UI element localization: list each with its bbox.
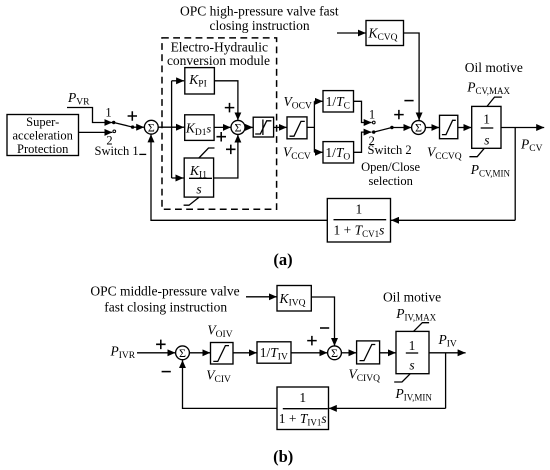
block rate limiter [253, 117, 273, 137]
wire switch2 pivot to summer S3 [392, 127, 412, 129]
svg-text:Oil motive: Oil motive [465, 60, 523, 75]
wire instruction to KCVQ [337, 32, 366, 34]
wire instruction to KIVQ [246, 296, 277, 298]
wire S3 to saturation VCCVQ [425, 127, 439, 129]
plus sign S2 left input [217, 132, 227, 142]
block lag 1/(1+TIV1 s) [277, 387, 329, 430]
wire KIVQ to summer S5 top [311, 297, 334, 346]
switch1 terminal 1 contact dot [112, 121, 115, 124]
wire S2 to rate limiter [245, 126, 253, 128]
svg-text:1: 1 [299, 390, 306, 405]
svg-text:1: 1 [409, 338, 416, 353]
wire KI1 output to summer S2 bottom [214, 135, 238, 178]
dashed box Electro-Hydraulic conversion module [162, 38, 277, 209]
svg-text:(a): (a) [273, 250, 292, 269]
svg-text:OPC high-pressure valve fast: OPC high-pressure valve fast [180, 4, 339, 19]
wire feedback left to S1 [151, 134, 327, 220]
switch 2 pivot dot [390, 126, 393, 129]
wire rate limiter to saturation [274, 126, 287, 128]
integrator IV upper limit mark [414, 323, 430, 332]
svg-text:Σ: Σ [415, 121, 422, 135]
wire feedback left to S4 [183, 360, 278, 408]
svg-text:Oil motive: Oil motive [383, 290, 441, 305]
wire branch to 1/TC [314, 100, 322, 102]
wire S4 to saturation OIV [189, 352, 210, 354]
wire saturation to integrator [458, 127, 472, 129]
dash after Switch 1 [139, 153, 146, 155]
svg-text:1: 1 [356, 202, 363, 217]
svg-text:1: 1 [105, 106, 111, 120]
wire branch to KPI [172, 80, 185, 82]
svg-text:Switch 1: Switch 1 [95, 144, 139, 158]
summing junction S1 [144, 120, 158, 134]
svg-text:Σ: Σ [148, 120, 155, 134]
minus sign S5 top input [320, 327, 329, 329]
svg-text:1: 1 [483, 111, 490, 126]
minus sign S4 bottom input [162, 371, 171, 373]
block 1/TC [323, 91, 354, 112]
wire saturation to integrator IV [380, 352, 396, 354]
block: Super-acceleration Protection [7, 115, 79, 157]
block KI1 over s integrator [184, 148, 215, 205]
plus sign S2 bottom input [226, 145, 236, 155]
svg-text:OPC middle-pressure valve: OPC middle-pressure valve [90, 283, 239, 298]
svg-text:Σ: Σ [235, 121, 242, 135]
wire KCVQ to summer S3 top [404, 33, 420, 120]
summing junction S4 [176, 346, 190, 360]
summing junction S2 [231, 120, 245, 134]
wire output node down [514, 128, 516, 221]
switch2 terminal 2 contact dot [372, 130, 375, 133]
wire branch vertical inside dashed box [171, 81, 173, 178]
plus sign S5 left input [307, 336, 317, 346]
wire S5 to saturation CIVQ [341, 352, 356, 354]
integrator IV lower limit mark [394, 374, 410, 382]
wire output node down (b) [445, 353, 447, 409]
block saturation VCIVQ [357, 341, 380, 364]
switch 2 lever [374, 128, 392, 133]
plus sign S4 left input [156, 340, 166, 350]
svg-text:1: 1 [369, 107, 375, 121]
integrator CV lower limit mark [469, 148, 484, 156]
minus sign S3 top input [404, 100, 413, 102]
wire integrator output PCV [501, 127, 544, 129]
block 1/TO [323, 142, 354, 163]
svg-text:fast closing instruction: fast closing instruction [104, 299, 227, 314]
svg-text:Protection: Protection [17, 142, 69, 156]
wire PVR input to switch 1 terminal 1 [67, 108, 112, 123]
switch 1 lever [114, 123, 133, 128]
wire 1/TO to switch2 terminal 2 [354, 132, 372, 152]
switch1 terminal 2 open contact [113, 130, 116, 133]
block saturation VOIV/VCIV [211, 343, 234, 365]
block integrator 1/s IV [394, 323, 429, 382]
svg-text:(b): (b) [273, 447, 293, 466]
block lag 1/(1+TCV1 s) [327, 199, 390, 243]
plus sign S2 top input [225, 103, 235, 113]
svg-text:s: s [409, 358, 414, 373]
switch 1 pivot dot [131, 125, 134, 128]
wire switch1 pivot to summer S1 [133, 126, 145, 128]
wire saturation out branch [307, 101, 314, 152]
block saturation VCCVQ [440, 115, 458, 138]
title: OPC middle-pressure valve fast closing instruction [90, 283, 239, 314]
svg-text:acceleration: acceleration [13, 129, 74, 143]
svg-text:Super-: Super- [26, 115, 59, 129]
wire feedback right to lag block (b) [329, 407, 446, 409]
block KCVQ [366, 21, 404, 46]
svg-text:Σ: Σ [331, 346, 338, 360]
block saturation V [287, 117, 307, 139]
KI1 lower limit mark [184, 197, 200, 205]
wire PIVR to summer S4 [137, 352, 175, 354]
svg-text:conversion module: conversion module [167, 53, 270, 68]
integrator CV upper limit mark [487, 97, 502, 106]
block KD1s [185, 115, 214, 141]
wire branch to KI1 [172, 177, 184, 179]
svg-text:s: s [484, 133, 489, 148]
svg-text:Open/Close: Open/Close [361, 160, 420, 174]
summing junction S3 [412, 121, 426, 135]
switch2 terminal 1 open contact [372, 121, 375, 124]
wire branch to 1/TO [314, 151, 322, 153]
KI1 upper limit mark [199, 148, 215, 158]
svg-text:closing instruction: closing instruction [210, 18, 310, 33]
wire 1/TIV to summer S5 [291, 352, 327, 354]
svg-text:s: s [196, 182, 201, 197]
summing junction S5 [328, 346, 342, 360]
plus sign S3 left input [394, 110, 404, 119]
wire integrator output PIV [429, 352, 466, 354]
block 1/TIV [257, 342, 291, 363]
block KIVQ [277, 286, 311, 312]
svg-text:selection: selection [368, 174, 413, 188]
wire 1/TC to switch2 terminal 1 [354, 101, 372, 122]
wire KPI output to summer S2 top [214, 81, 238, 121]
wire KD1s output to summer S2 left [214, 126, 231, 128]
block integrator 1/s CV [469, 97, 502, 157]
wire feedback right to lag block [391, 219, 515, 221]
wire protection box to switch 1 terminal 2 [79, 131, 113, 133]
wire saturation to 1/TIV [233, 352, 257, 354]
svg-text:Σ: Σ [179, 346, 186, 360]
wire S1 output to KDIS input [158, 126, 184, 128]
svg-text:Switch 2: Switch 2 [368, 143, 412, 157]
title: OPC high-pressure valve fast closing instruction [180, 4, 339, 33]
plus sign at S1 input [128, 111, 137, 120]
block KPI [185, 68, 215, 94]
